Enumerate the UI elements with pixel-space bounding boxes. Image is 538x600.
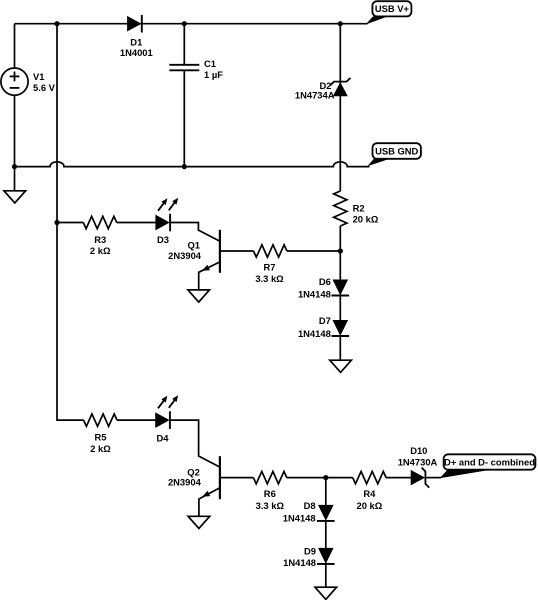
LED D4 arrows (158, 400, 164, 408)
wire D9 to ground (325, 564, 327, 587)
wire left vertical rail (57, 24, 84, 420)
svg-text:D7: D7 (319, 315, 331, 326)
wire D6 to D7 (339, 296, 341, 321)
wire R5 to D4 (117, 419, 156, 421)
svg-text:5.6 V: 5.6 V (33, 82, 56, 93)
svg-text:1N4148: 1N4148 (283, 513, 316, 524)
flag USB V+ (366, 17, 388, 25)
flag D+ and D- combined (440, 470, 491, 478)
node V1 bottom / ground (12, 164, 17, 169)
node top rail / vertical rail (54, 21, 59, 26)
wire R3 to D3 (117, 222, 156, 224)
svg-text:R6: R6 (264, 488, 276, 499)
svg-text:D8: D8 (304, 500, 316, 511)
wire D7 to ground (339, 336, 341, 360)
resistor R3 (83, 216, 116, 228)
svg-text:V1: V1 (33, 71, 44, 82)
wire R2 to D6 (339, 226, 341, 280)
svg-text:R4: R4 (363, 488, 376, 499)
ground Q2 emitter (188, 516, 210, 528)
ground row2 (330, 360, 352, 372)
resistor R4 (353, 471, 386, 483)
zener diode D2 (334, 83, 347, 96)
svg-text:2N3904: 2N3904 (168, 250, 202, 261)
wire V1 bottom lead (14, 95, 16, 191)
resistor R7 (254, 245, 287, 257)
svg-text:20 kΩ: 20 kΩ (357, 500, 383, 511)
node top rail / D2 branch (338, 21, 343, 26)
svg-text:2 kΩ: 2 kΩ (90, 443, 111, 454)
svg-text:1N4148: 1N4148 (298, 288, 331, 299)
resistor R6 (253, 471, 286, 483)
wire bottom rail with hops (15, 162, 370, 167)
svg-text:Q1: Q1 (187, 240, 200, 251)
svg-text:C1: C1 (204, 58, 216, 69)
svg-text:2 kΩ: 2 kΩ (90, 245, 111, 256)
svg-text:R3: R3 (94, 234, 106, 245)
node bottom rail / C1 (182, 164, 187, 169)
LED D3 arrows (158, 203, 164, 211)
LED D3 (156, 216, 169, 230)
wire R7 to node (287, 250, 340, 252)
wire C1 bottom lead (183, 70, 185, 166)
wire Q2 base to R6 (220, 477, 254, 479)
wire node to D8 (325, 478, 327, 506)
wire V1 top to rail (14, 24, 16, 68)
svg-text:USB V+: USB V+ (375, 3, 410, 14)
flag USB GND (367, 159, 389, 166)
ground Q1 emitter (188, 290, 210, 302)
svg-text:1N4001: 1N4001 (120, 47, 153, 58)
svg-text:R7: R7 (264, 261, 276, 272)
svg-text:D10: D10 (410, 445, 427, 456)
ground bottom (315, 587, 337, 599)
zener diode D10 (411, 471, 424, 485)
wire R4 to D10 (386, 477, 411, 479)
diode D1 (128, 17, 141, 31)
LED D4 (156, 413, 169, 427)
svg-text:2N3904: 2N3904 (168, 477, 202, 488)
svg-text:1 µF: 1 µF (204, 69, 223, 80)
svg-text:D6: D6 (319, 276, 331, 287)
wire D2 branch vertical (339, 24, 341, 191)
voltage source V1 (1, 68, 28, 95)
svg-text:D1: D1 (130, 37, 142, 48)
svg-text:1N4148: 1N4148 (283, 557, 316, 568)
wire D3 to Q1 collector (170, 223, 220, 242)
svg-text:D3: D3 (157, 234, 169, 245)
wire D8 to D9 (325, 521, 327, 549)
wire D4 to Q2 collector (170, 420, 220, 467)
svg-text:R2: R2 (353, 202, 365, 213)
wire Q1 base to R7 (220, 250, 254, 252)
wire C1 top lead (183, 24, 185, 64)
diode D7 (333, 321, 347, 335)
node R2 / R7 / D6 (338, 248, 343, 253)
svg-text:20 kΩ: 20 kΩ (353, 214, 379, 225)
svg-text:3.3 kΩ: 3.3 kΩ (256, 500, 285, 511)
wire row2 lead to R3 (57, 222, 83, 224)
ground V1 (4, 191, 26, 203)
node rail / row2 (54, 220, 59, 225)
svg-text:R5: R5 (95, 431, 107, 442)
capacitor C1 (169, 64, 199, 66)
wire top rail (15, 23, 368, 25)
svg-text:1N4730A: 1N4730A (398, 457, 438, 468)
diode D6 (333, 280, 347, 294)
resistor R5 (84, 414, 117, 426)
svg-text:1N4148: 1N4148 (298, 328, 331, 339)
svg-text:USB GND: USB GND (375, 145, 418, 156)
svg-text:D4: D4 (157, 432, 170, 443)
wire R6 to R4 (287, 477, 353, 479)
resistor R2 (334, 191, 347, 226)
svg-text:D+ and D- combined: D+ and D- combined (444, 456, 535, 467)
diode D8 (319, 505, 333, 519)
svg-text:1N4734A: 1N4734A (295, 90, 335, 101)
transistor Q2 (219, 456, 221, 499)
wire D10 to flag (425, 477, 441, 479)
node top rail / C1 (182, 21, 187, 26)
node R6 / R4 / D8 (323, 475, 328, 480)
svg-text:D9: D9 (304, 546, 316, 557)
diode D9 (319, 548, 333, 562)
transistor Q1 (219, 230, 221, 273)
svg-text:3.3 kΩ: 3.3 kΩ (255, 273, 284, 284)
